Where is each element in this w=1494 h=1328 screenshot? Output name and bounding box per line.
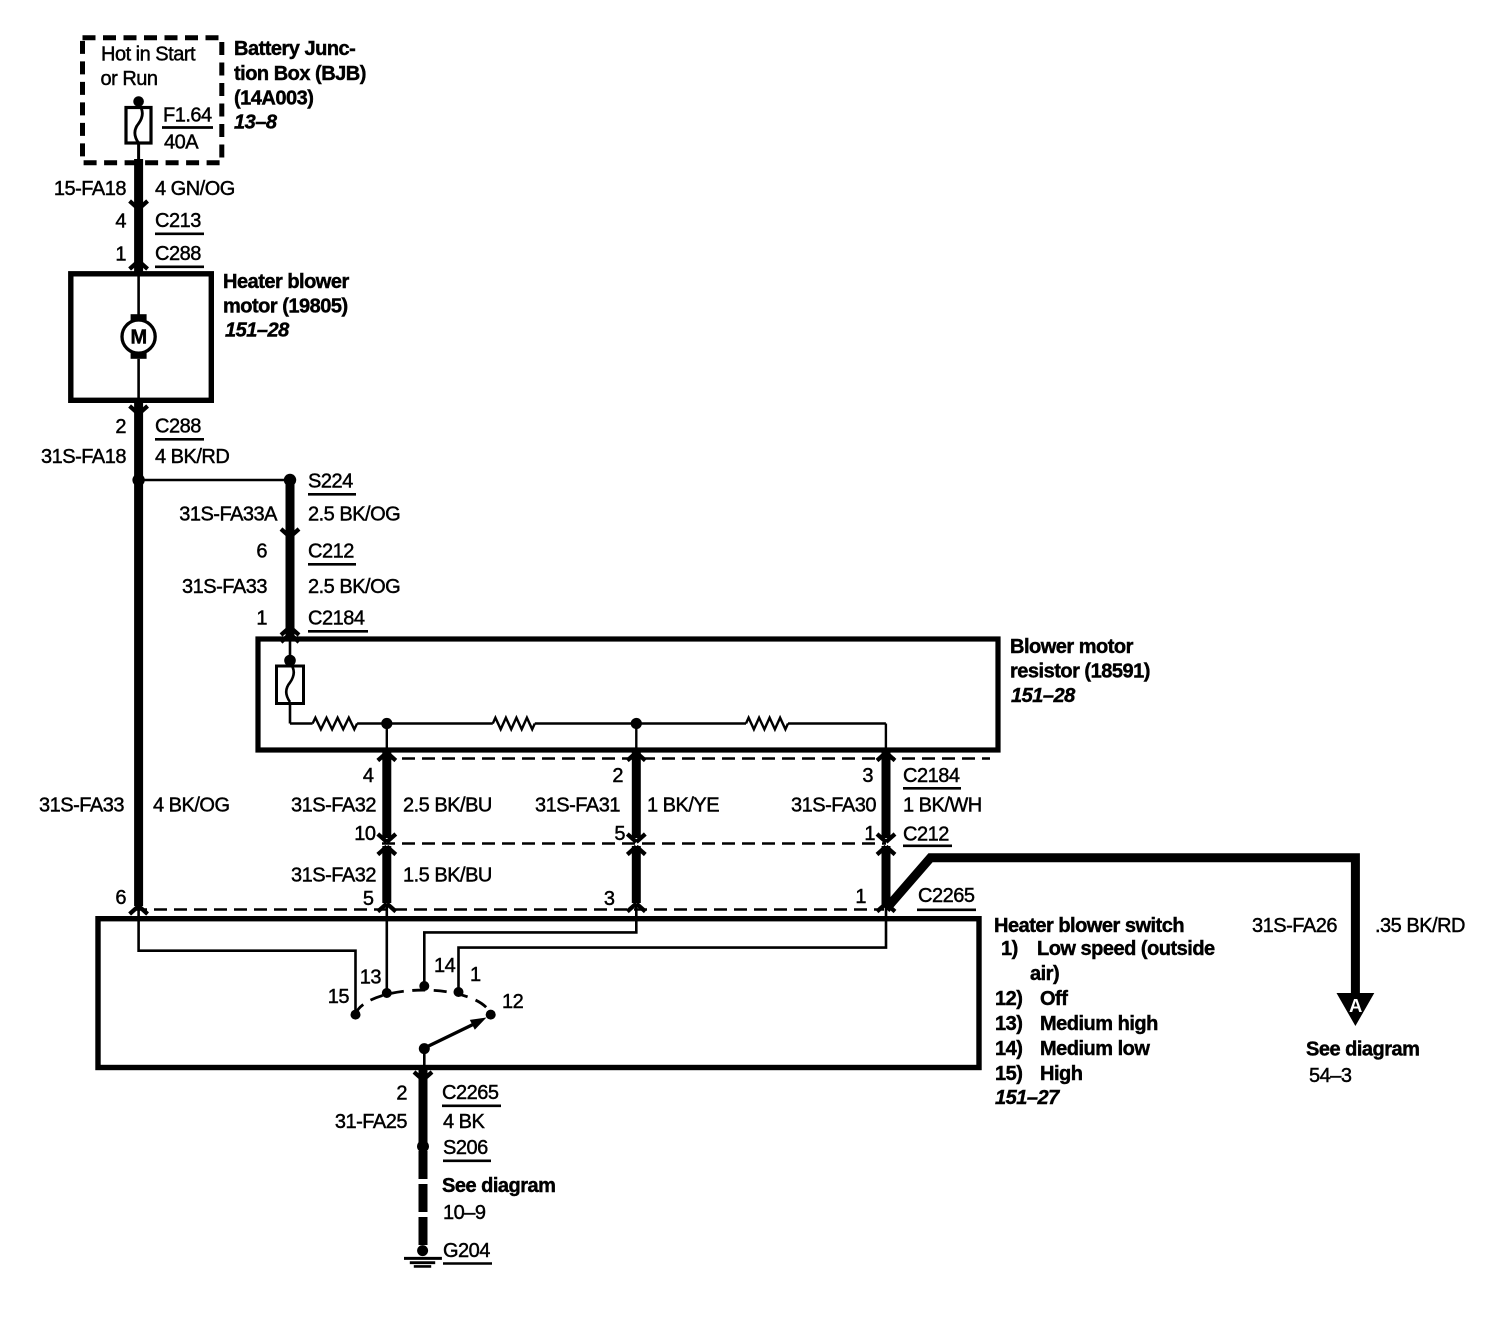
svg-text:motor (19805): motor (19805) <box>223 296 348 318</box>
dashed wire to ground <box>419 1151 428 1246</box>
wiper arrow to position 12 <box>426 1024 475 1048</box>
resistor element chain <box>290 722 313 724</box>
svg-text:C2184: C2184 <box>903 765 960 787</box>
svg-text:1: 1 <box>115 244 126 266</box>
svg-text:31S-FA33A: 31S-FA33A <box>179 504 278 526</box>
svg-text:4 BK/RD: 4 BK/RD <box>155 446 229 468</box>
svg-text:12: 12 <box>502 991 524 1013</box>
svg-text:Medium high: Medium high <box>1040 1013 1158 1035</box>
svg-text:C288: C288 <box>155 416 201 438</box>
svg-text:6: 6 <box>256 541 267 563</box>
contact 12 <box>486 1010 496 1020</box>
svg-text:1: 1 <box>864 823 875 845</box>
svg-text:1): 1) <box>1001 938 1018 960</box>
svg-text:31-FA25: 31-FA25 <box>335 1111 407 1133</box>
svg-text:4 GN/OG: 4 GN/OG <box>155 178 235 200</box>
svg-text:(14A003): (14A003) <box>234 88 313 110</box>
svg-text:C2265: C2265 <box>918 885 975 907</box>
svg-text:4: 4 <box>363 765 374 787</box>
switch contact wiring pin 1 to position 1 <box>459 905 887 988</box>
wire pin 1 lower segment <box>877 847 895 855</box>
svg-text:1: 1 <box>470 964 481 986</box>
wire 31-FA25 4 BK below switch <box>419 1069 428 1146</box>
tap wires down to box edge <box>386 724 388 749</box>
splice S206 <box>417 1140 429 1152</box>
wire 31S-FA33A 2.5 BK/OG <box>286 480 295 638</box>
svg-text:12): 12) <box>995 988 1022 1010</box>
svg-text:151–27: 151–27 <box>995 1087 1060 1109</box>
svg-text:10: 10 <box>354 823 376 845</box>
svg-text:13–8: 13–8 <box>234 112 278 134</box>
connector C288 pin 2 <box>130 406 148 414</box>
svg-text:2: 2 <box>396 1083 407 1105</box>
svg-text:F1.64: F1.64 <box>163 105 212 127</box>
resistor R2 <box>493 718 535 730</box>
tap node pin 2 <box>631 718 642 729</box>
switch contact wiring pin 3 to position 14 <box>424 905 636 982</box>
svg-text:5: 5 <box>614 823 625 845</box>
svg-text:A: A <box>1349 995 1362 1016</box>
blower motor resistor box <box>258 639 998 750</box>
contact 15 <box>351 1010 361 1020</box>
switch contact wiring pin 6 to position 15 <box>139 908 356 1010</box>
svg-text:S224: S224 <box>308 471 353 493</box>
rotary contact arc <box>356 990 491 1015</box>
svg-text:Heater blower switch: Heater blower switch <box>994 915 1184 937</box>
wire to splice S224 <box>139 479 290 482</box>
svg-text:14): 14) <box>995 1038 1022 1060</box>
resistor R3 <box>746 718 788 730</box>
svg-text:15): 15) <box>995 1063 1022 1085</box>
svg-text:31S-FA31: 31S-FA31 <box>535 795 620 817</box>
connector C212 pin 6 <box>281 529 299 537</box>
svg-text:High: High <box>1040 1063 1082 1085</box>
svg-text:C288: C288 <box>155 243 201 265</box>
svg-text:Blower motor: Blower motor <box>1010 636 1134 658</box>
svg-text:3: 3 <box>862 765 873 787</box>
svg-text:C2265: C2265 <box>442 1082 499 1104</box>
connector C212 dashed line <box>382 842 886 845</box>
svg-text:Hot in Start: Hot in Start <box>101 44 196 66</box>
splice junction on wire 31S-FA33 <box>132 474 144 486</box>
svg-text:G204: G204 <box>443 1240 490 1262</box>
switch contact wiring pin 5 to position 13 <box>385 905 388 989</box>
svg-text:1.5 BK/BU: 1.5 BK/BU <box>403 865 492 887</box>
svg-text:or Run: or Run <box>101 68 158 90</box>
svg-text:31S-FA30: 31S-FA30 <box>791 795 876 817</box>
svg-text:Low speed (outside: Low speed (outside <box>1037 938 1215 960</box>
svg-text:air): air) <box>1030 963 1059 985</box>
connector C2184 dashed line <box>382 757 990 760</box>
fuse F1.64 40A <box>133 96 144 107</box>
connector C2265 pin 2 <box>414 1072 432 1080</box>
connector C288 pin 1 <box>130 261 148 269</box>
svg-text:2.5 BK/OG: 2.5 BK/OG <box>308 504 400 526</box>
svg-text:31S-FA18: 31S-FA18 <box>41 446 126 468</box>
connector C2184 pin 1 <box>281 627 299 635</box>
thermal limiter inside resistor box <box>289 642 292 656</box>
svg-text:10–9: 10–9 <box>443 1202 486 1224</box>
svg-text:4 BK/OG: 4 BK/OG <box>153 795 230 817</box>
svg-text:31S-FA32: 31S-FA32 <box>291 795 376 817</box>
svg-text:2: 2 <box>115 416 126 438</box>
off-page arrow A <box>1337 993 1375 1026</box>
svg-text:C213: C213 <box>155 210 201 232</box>
svg-text:1 BK/WH: 1 BK/WH <box>903 795 982 817</box>
svg-text:54–3: 54–3 <box>1309 1065 1352 1087</box>
svg-text:1: 1 <box>855 886 866 908</box>
wire 31S-FA31 1 BK/YE (pin 2 to 5) <box>632 751 641 838</box>
wire 15-FA18 4 GN/OG from BJB to motor <box>134 159 143 272</box>
switch wiper pivot <box>419 1043 430 1054</box>
svg-text:Heater blower: Heater blower <box>223 271 349 293</box>
contact 1 <box>454 987 464 997</box>
svg-text:14: 14 <box>434 955 456 977</box>
battery junction box BJB (dashed enclosure) <box>83 38 222 163</box>
svg-text:C2184: C2184 <box>308 608 365 630</box>
svg-text:15: 15 <box>328 986 350 1008</box>
svg-text:151–28: 151–28 <box>1011 685 1076 707</box>
svg-text:2.5 BK/BU: 2.5 BK/BU <box>403 795 492 817</box>
connector C213 pin 4 <box>130 201 148 209</box>
svg-text:151–28: 151–28 <box>225 320 290 342</box>
svg-text:15-FA18: 15-FA18 <box>54 178 126 200</box>
svg-text:Battery Junc-: Battery Junc- <box>234 38 355 60</box>
svg-text:M: M <box>131 327 147 349</box>
svg-text:31S-FA32: 31S-FA32 <box>291 865 376 887</box>
svg-text:Off: Off <box>1040 988 1068 1010</box>
wire 31S-FA32 1.5 BK/BU (pin 5) <box>378 847 396 855</box>
svg-text:resistor (18591): resistor (18591) <box>1010 661 1150 683</box>
svg-text:6: 6 <box>115 887 126 909</box>
heater blower motor box <box>71 274 212 401</box>
wire 31S-FA18 4 BK/RD below motor <box>134 402 143 480</box>
svg-text:C212: C212 <box>308 541 354 563</box>
connector C2265 dashed line <box>134 908 884 911</box>
svg-text:.35 BK/RD: .35 BK/RD <box>1375 915 1465 937</box>
ground G204 <box>417 1245 428 1256</box>
svg-text:31S-FA33: 31S-FA33 <box>182 576 267 598</box>
contact 14 <box>419 981 429 991</box>
heater blower switch box <box>98 919 979 1068</box>
resistor R1 <box>313 718 358 730</box>
svg-text:31S-FA26: 31S-FA26 <box>1252 915 1337 937</box>
svg-text:4: 4 <box>115 211 126 233</box>
svg-text:2.5 BK/OG: 2.5 BK/OG <box>308 576 400 598</box>
svg-text:Medium low: Medium low <box>1040 1038 1150 1060</box>
wire 31S-FA30 1 BK/WH (pin 3 to 1) <box>882 751 891 838</box>
svg-text:5: 5 <box>363 888 374 910</box>
svg-text:4 BK: 4 BK <box>443 1111 486 1133</box>
svg-text:40A: 40A <box>164 132 199 154</box>
contact 13 <box>382 988 392 998</box>
svg-text:C212: C212 <box>903 824 949 846</box>
svg-text:1: 1 <box>256 608 267 630</box>
wire 31S-FA32 2.5 BK/BU (pin 4 to 10) <box>382 751 391 838</box>
svg-text:See diagram: See diagram <box>442 1175 555 1197</box>
svg-text:tion Box (BJB): tion Box (BJB) <box>234 63 366 85</box>
wire 31S-FA26 .35 BK/RD to diagram 54-3 <box>886 858 1355 996</box>
svg-text:3: 3 <box>604 888 615 910</box>
svg-text:31S-FA33: 31S-FA33 <box>39 795 124 817</box>
svg-text:2: 2 <box>612 765 623 787</box>
wire 31S-FA33 4 BK/OG main left drop <box>134 480 143 906</box>
svg-text:13: 13 <box>360 967 382 989</box>
wire from wiper to box edge <box>423 1050 426 1067</box>
svg-text:S206: S206 <box>443 1137 488 1159</box>
svg-text:13): 13) <box>995 1013 1022 1035</box>
svg-text:See diagram: See diagram <box>1306 1039 1419 1061</box>
motor M symbol <box>137 276 140 315</box>
wire pin 3 lower segment <box>627 847 645 855</box>
splice S224 <box>284 474 296 486</box>
tap node pin 4 <box>381 718 392 729</box>
wire to pin 3 <box>885 724 887 749</box>
svg-text:1 BK/YE: 1 BK/YE <box>647 795 719 817</box>
